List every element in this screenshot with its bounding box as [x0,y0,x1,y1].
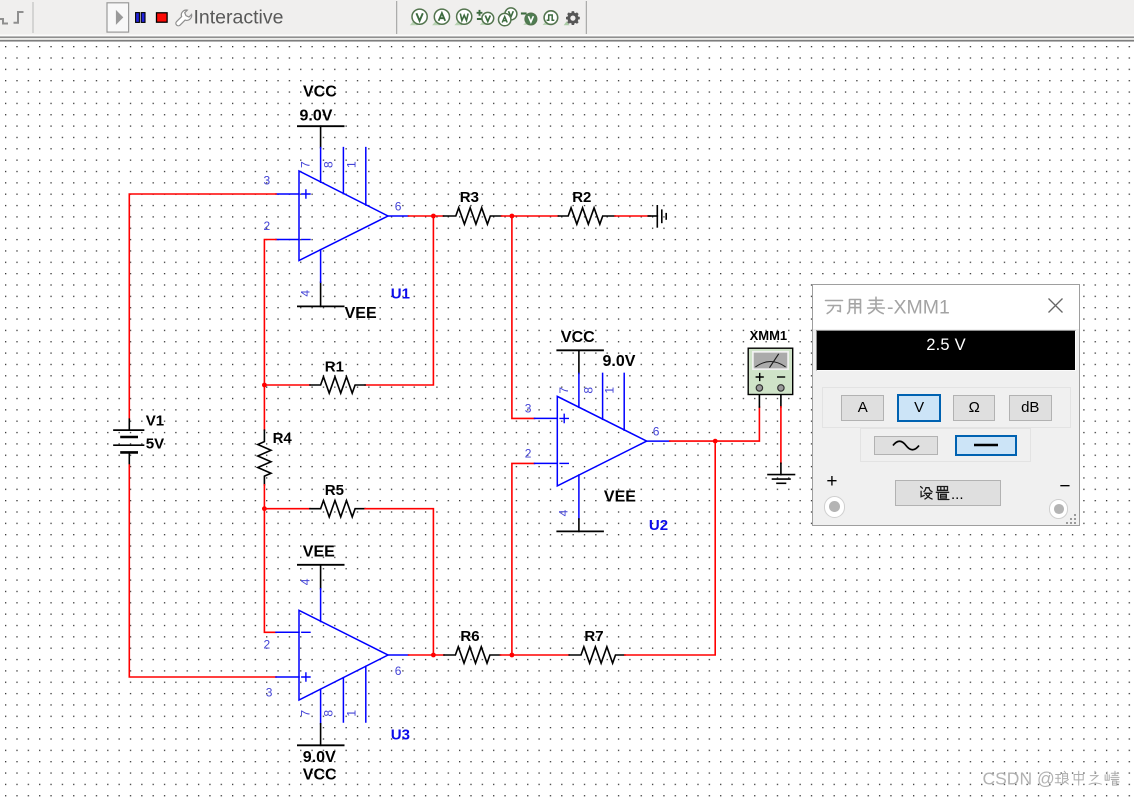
VCC power symbol (U3) [298,724,344,746]
toolbar step icon 2 [14,12,24,23]
resistor R4 (vertical) [258,430,271,485]
minus terminal label [1059,476,1070,498]
svg-text:3: 3 [264,173,271,187]
multimeter display (2.5 V) [816,330,1076,371]
junction node C (R1 left / feedback column) [262,383,267,388]
probe icon digital/pulse [543,19,553,25]
svg-text:3: 3 [525,402,532,416]
signal group box [860,428,1030,463]
toolbar separator 1 [32,2,34,33]
toolbar background [0,0,1134,35]
svg-text:8: 8 [581,387,595,394]
button Ohm [953,395,996,421]
svg-text:R2: R2 [572,189,591,206]
wire U3 output to node E [409,654,444,656]
svg-text:VEE: VEE [604,489,636,506]
svg-text:VCC: VCC [561,329,595,346]
U2 pin number labels [525,387,660,517]
dialog title text 万用表-XMM1 [824,294,974,320]
svg-text:2: 2 [525,447,532,461]
svg-text:VEE: VEE [303,543,335,560]
svg-text:2: 2 [264,638,271,652]
toolbar stop button [157,13,168,22]
wire U1 inverting input to feedback node [264,240,276,431]
svg-text:VEE: VEE [345,305,377,322]
svg-text:1: 1 [345,161,359,168]
settings button 设置... [895,480,1001,506]
probe icon A/V differential [505,8,517,20]
resistor R1 [310,377,365,393]
svg-text:8: 8 [321,161,335,168]
op-amp U1 [276,148,409,283]
svg-text:7: 7 [299,710,313,717]
wire XMM1 minus to ground [780,407,782,463]
wire R2 to ground [615,215,650,217]
wire U1 output to node A [409,215,444,217]
svg-text:8: 8 [321,710,335,717]
wire R6 to R7 [501,654,570,656]
wire node B down to U2 noninverting input [512,216,535,418]
wire node A down to R1 right [365,216,433,385]
wire node D down to U3 inverting input [264,509,276,633]
dialog close button [1047,297,1065,315]
VEE power symbol (U2) [557,519,603,531]
wire battery negative to U3 noninverting input [129,465,276,677]
svg-text:6: 6 [395,664,402,678]
AC (sine) button [874,436,938,456]
svg-text:U1: U1 [391,286,410,303]
svg-text:2: 2 [264,219,271,233]
svg-text:VCC: VCC [303,767,337,784]
probe settings gear icon [564,21,570,25]
svg-text:R1: R1 [325,359,344,376]
svg-text:4: 4 [299,290,313,297]
wire node C to R1 [264,384,310,386]
VCC power symbol (U2) [557,350,603,373]
probe icon A [432,19,443,25]
multimeter XMM1 dialog window [812,284,1079,526]
CSDN watermark [980,766,1134,792]
svg-text:...: ... [951,486,964,503]
resistor R5 [310,501,365,517]
svg-text:XMM1: XMM1 [750,328,788,343]
resistor R6 [444,647,501,663]
VCC power symbol (U1) [298,126,344,147]
svg-text:4: 4 [299,578,313,585]
toolbar separator 2 [396,1,398,34]
probe icon -V (reference) [521,12,527,14]
XMM1 plus terminal lead (black) [758,395,760,408]
svg-text:R4: R4 [273,430,293,447]
svg-text:R7: R7 [584,628,603,645]
svg-text:5V: 5V [146,435,164,452]
resistor R3 [444,208,502,224]
svg-text:6: 6 [395,200,402,214]
svg-text:Interactive: Interactive [194,7,284,29]
plus jack circle [824,496,846,518]
VEE power symbol (U3) [298,565,344,589]
svg-text:1: 1 [602,387,616,394]
svg-text:U2: U2 [649,517,668,534]
svg-text:CSDN @: CSDN @ [983,769,1055,789]
resistor R7 [569,647,625,663]
svg-text:R6: R6 [460,628,479,645]
minus jack circle [1049,499,1069,519]
wire node F up to U2 inverting input [512,463,535,655]
svg-text:6: 6 [653,425,660,439]
wire R5 right down to U3 output node [365,509,433,655]
wire R7 right up to U2 output node [625,441,715,655]
U1 pin number labels [264,161,402,297]
wire node D to R5 [264,508,310,510]
svg-text:7: 7 [299,161,313,168]
wire U2 output to node G [670,440,715,442]
svg-text:3: 3 [266,685,273,699]
junction node F (R6/R7) [510,653,515,658]
junction node G (U2 out) [713,439,718,444]
wire node G to XMM1 plus terminal [715,407,759,441]
button A [841,395,884,421]
svg-text:VCC: VCC [303,83,337,100]
toolbar left step icon (partial) [0,19,8,24]
ground symbol (below XMM1) [768,463,795,483]
toolbar wrench icon [176,10,192,26]
svg-text:1: 1 [345,710,359,717]
svg-text:4: 4 [557,509,571,516]
XMM1 minus terminal lead (black) [780,395,782,407]
wire V1+ to U1 noninverting input [129,194,276,419]
svg-text:V1: V1 [146,412,164,429]
svg-text:9.0V: 9.0V [300,108,333,125]
dialog title bar [813,285,1078,329]
probe icon V [410,19,421,25]
svg-text:7: 7 [557,387,571,394]
mode group box [822,387,1071,429]
U3 pin number labels [264,578,402,716]
probe icon +V [477,10,483,19]
battery V1 [114,419,144,465]
toolbar separator 3 [585,1,587,34]
resistor R2 [558,208,615,224]
junction node E (U3 out) [431,653,436,658]
DC button (selected) [955,435,1018,456]
svg-text:-XMM1: -XMM1 [887,296,950,318]
button V (selected) [897,394,941,422]
svg-text:R3: R3 [460,189,479,206]
svg-text:9.0V: 9.0V [603,353,636,370]
wire R4 bottom to node D [263,485,265,509]
junction node D (R4/R5) [262,506,267,511]
wire R3 to R2 [502,215,559,217]
button dB [1009,395,1052,421]
op-amp U2 [535,373,670,519]
junction node B (R3/R2) [510,214,515,219]
probe icon W [454,19,465,25]
toolbar pause button [136,13,140,23]
resize grip [1065,513,1077,525]
toolbar run (play) button [107,3,129,32]
svg-text:9.0V: 9.0V [303,749,336,766]
svg-text:R5: R5 [325,482,344,499]
plus terminal label [826,471,837,493]
multimeter XMM1 device [748,348,793,394]
ground symbol (right of R2) [648,206,666,227]
svg-text:U3: U3 [391,727,410,744]
VEE power symbol (U1) [298,282,344,306]
junction node A (U1 out) [431,214,436,219]
op-amp U3 (flipped) [276,589,409,724]
